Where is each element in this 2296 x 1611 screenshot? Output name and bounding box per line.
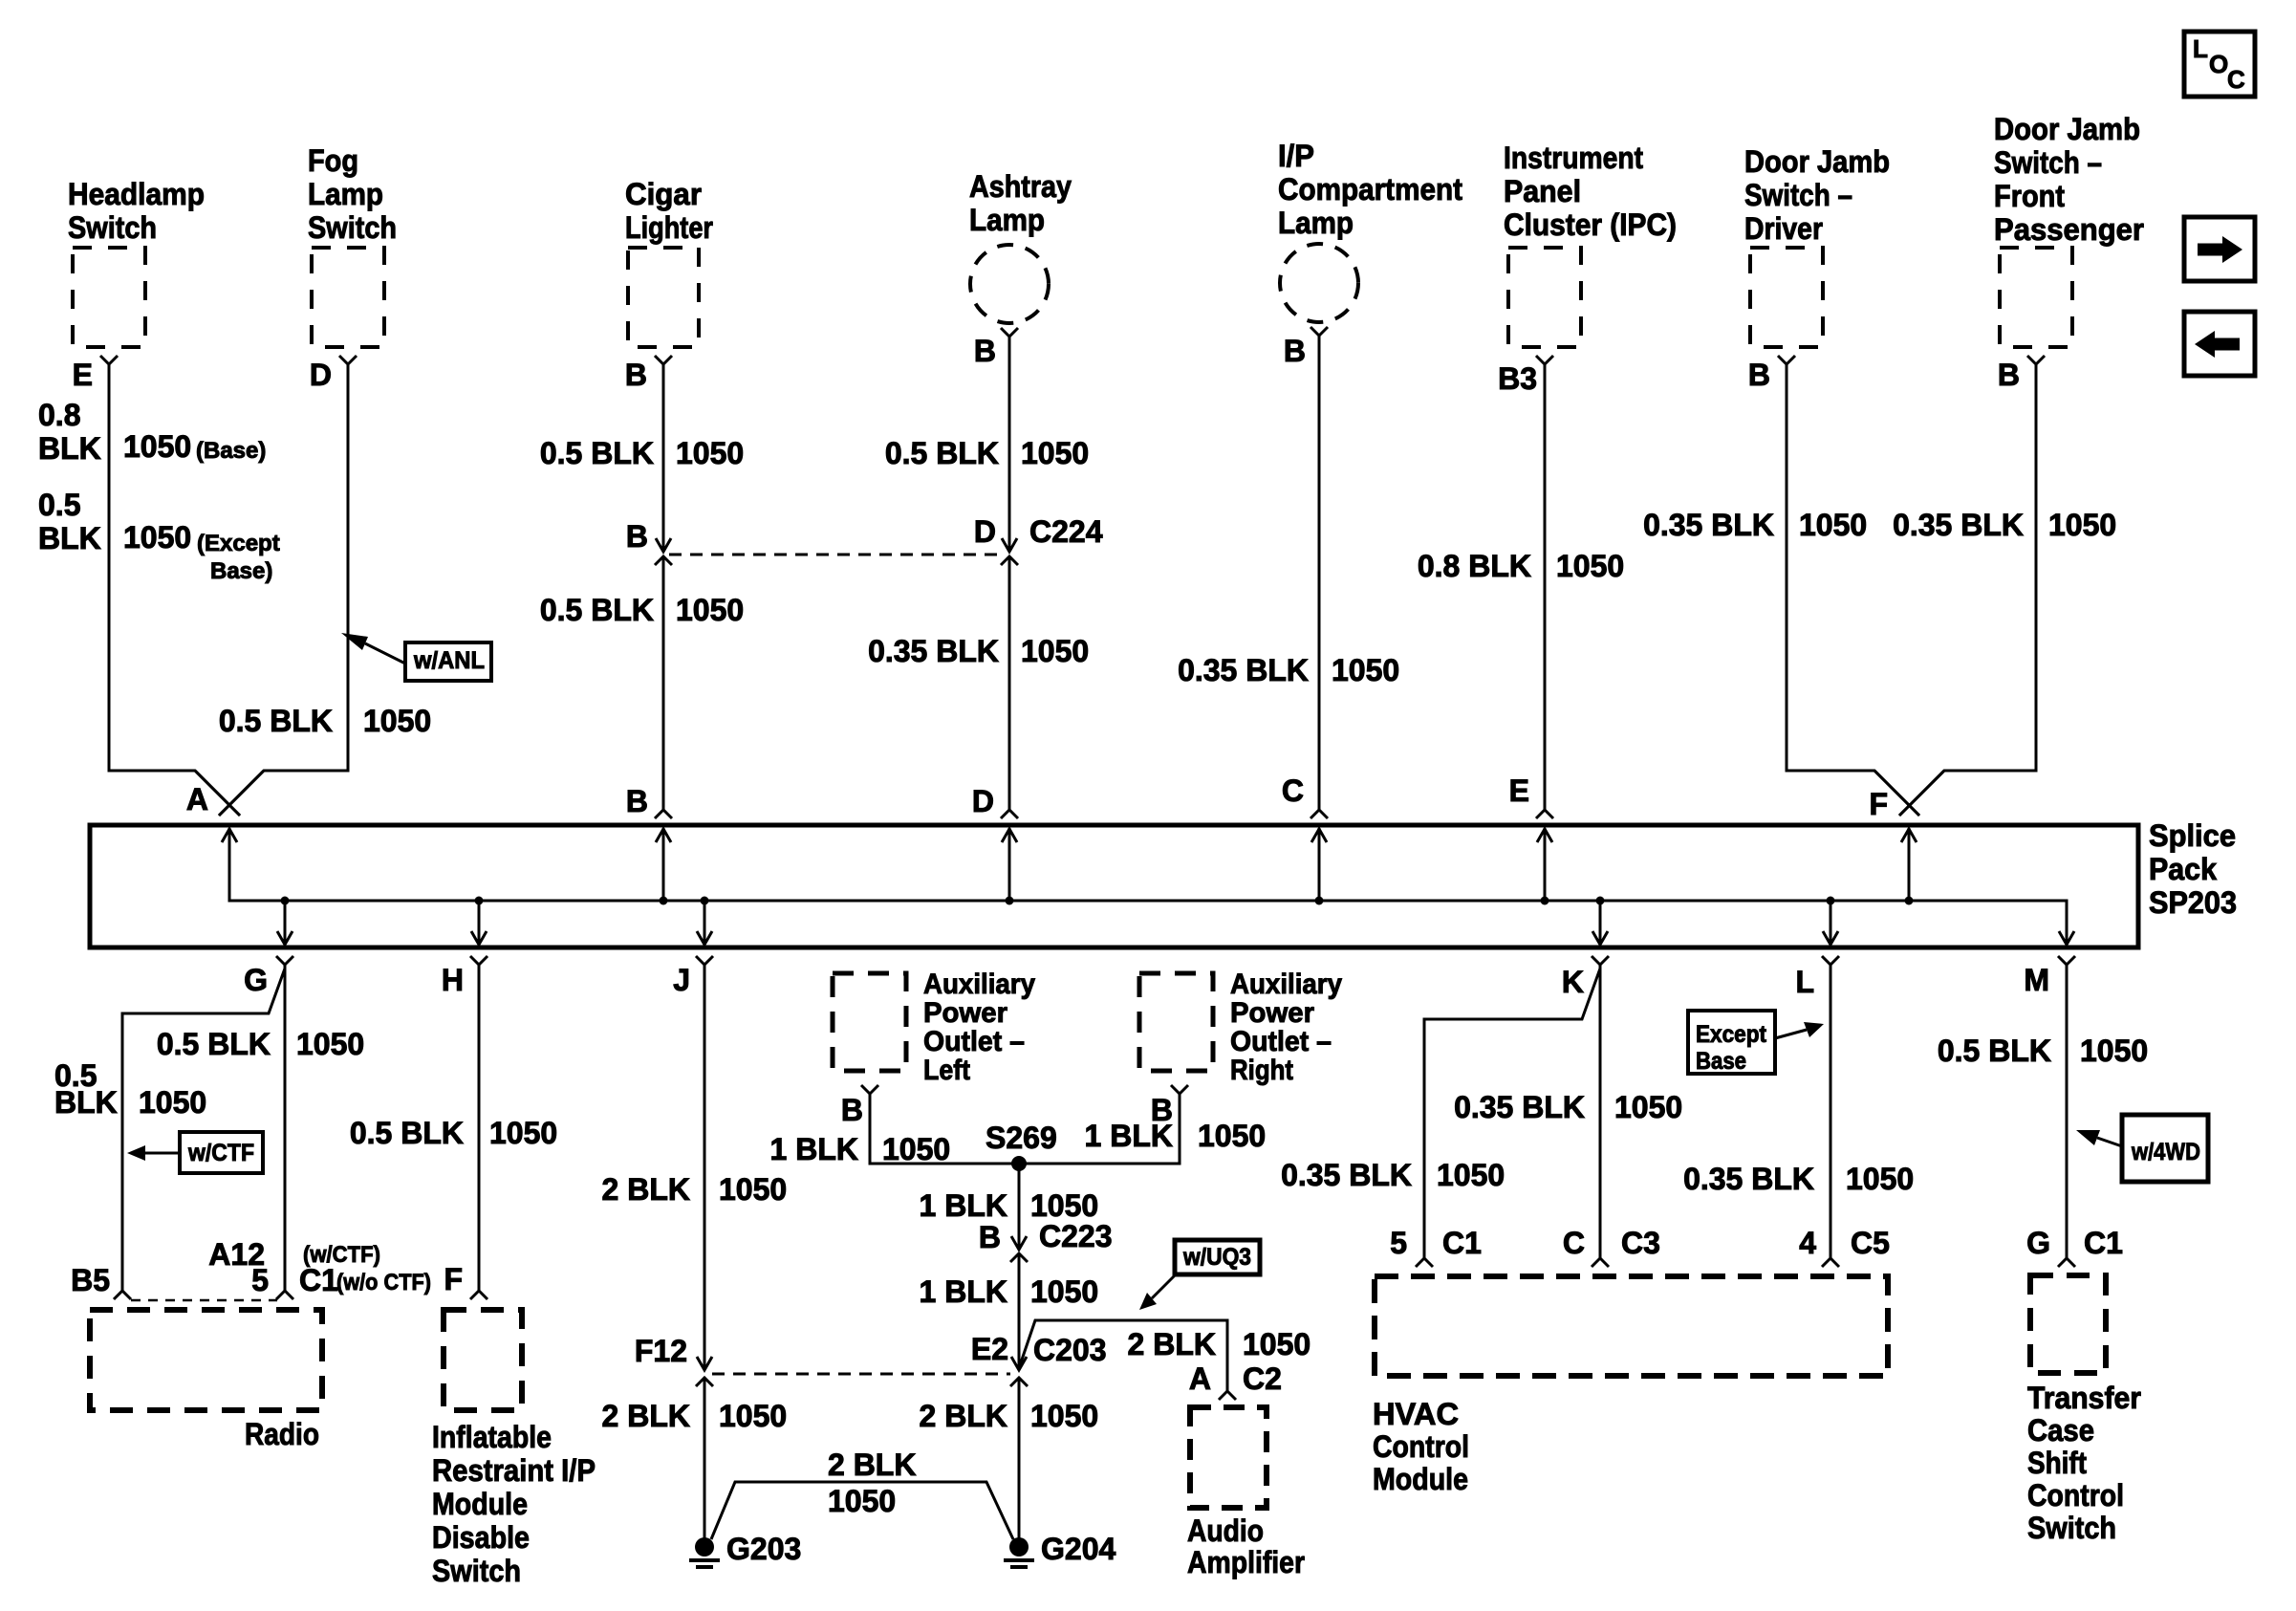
svg-text:Door Jamb: Door Jamb <box>1994 112 2140 146</box>
svg-text:D: D <box>310 358 332 392</box>
svg-text:w/ANL: w/ANL <box>413 647 485 674</box>
splice pack exit G connector <box>276 956 293 965</box>
svg-text:1050: 1050 <box>296 1027 364 1061</box>
svg-text:0.5 BLK: 0.5 BLK <box>157 1027 271 1061</box>
svg-text:Ashtray: Ashtray <box>969 169 1072 204</box>
svg-text:Inflatable: Inflatable <box>432 1420 552 1454</box>
svg-text:0.35 BLK: 0.35 BLK <box>1454 1090 1585 1124</box>
component Door Jamb Switch Driver box <box>1750 248 1823 347</box>
w/UQ3 flag box <box>1175 1240 1260 1274</box>
component Auxiliary Power Outlet Left box <box>833 973 906 1071</box>
svg-text:2 BLK: 2 BLK <box>828 1448 916 1482</box>
svg-text:Passenger: Passenger <box>1994 212 2144 247</box>
connector at Headlamp Switch pin E <box>100 356 118 364</box>
splice pack bus junction dots <box>281 897 290 905</box>
svg-text:0.8: 0.8 <box>38 398 80 432</box>
svg-text:C1: C1 <box>1442 1226 1482 1260</box>
splice pack exit arrow L <box>1823 931 1838 945</box>
svg-text:L: L <box>1795 965 1814 999</box>
connector C224 chevron ashtray side <box>1001 556 1018 565</box>
svg-text:0.35 BLK: 0.35 BLK <box>1893 508 2024 542</box>
svg-text:E2: E2 <box>971 1332 1008 1366</box>
svg-text:w/CTF: w/CTF <box>187 1140 254 1166</box>
svg-text:Control: Control <box>1373 1429 1469 1464</box>
svg-text:1050: 1050 <box>123 429 191 464</box>
svg-text:S269: S269 <box>986 1121 1057 1155</box>
svg-text:Outlet –: Outlet – <box>923 1026 1025 1057</box>
svg-text:1050: 1050 <box>828 1484 896 1518</box>
svg-text:Compartment: Compartment <box>1278 172 1462 207</box>
svg-text:C3: C3 <box>1621 1226 1660 1260</box>
svg-text:F: F <box>1869 787 1888 821</box>
svg-text:1050: 1050 <box>1437 1158 1505 1192</box>
svg-text:Except: Except <box>1696 1021 1767 1048</box>
svg-text:1050: 1050 <box>676 436 744 470</box>
wire 0.5 BLK 1050 from exit M to Transfer Case pin G/C1 <box>2066 965 2069 1258</box>
svg-text:BLK: BLK <box>38 521 101 555</box>
svg-text:1050: 1050 <box>139 1085 206 1120</box>
splice pack entry arrow D <box>1002 829 1017 842</box>
svg-text:1050: 1050 <box>1243 1327 1310 1361</box>
svg-text:B: B <box>626 784 648 818</box>
svg-text:1050: 1050 <box>489 1116 557 1150</box>
svg-text:B: B <box>841 1093 863 1127</box>
svg-text:1050: 1050 <box>882 1132 950 1166</box>
connector C223 chevron <box>1010 1253 1028 1262</box>
wire 2 BLK 1050 from exit J to connector C203 F12 <box>704 965 706 1370</box>
svg-text:1050: 1050 <box>1846 1162 1914 1196</box>
wire 2 BLK 1050 from C203 to ground G204 <box>1018 1378 1021 1539</box>
svg-text:(Except: (Except <box>197 531 280 556</box>
svg-text:E: E <box>1509 773 1529 808</box>
wire 0.5 BLK 1050 from exit G to Radio pin 5/C1 <box>284 965 287 1291</box>
svg-text:2 BLK: 2 BLK <box>602 1399 690 1433</box>
wire 0.5 BLK 1050 from Ashtray Lamp to connector C224 <box>1008 337 1011 551</box>
ground G204 symbol <box>1009 1537 1029 1557</box>
svg-text:Base): Base) <box>210 558 272 584</box>
w/CTF flag arrow <box>145 1152 180 1155</box>
svg-text:0.8 BLK: 0.8 BLK <box>1418 549 1531 583</box>
svg-text:Outlet –: Outlet – <box>1230 1026 1332 1057</box>
svg-text:0.35 BLK: 0.35 BLK <box>1683 1162 1814 1196</box>
svg-text:Auxiliary: Auxiliary <box>1230 969 1342 1000</box>
w/CTF flag box <box>180 1132 263 1173</box>
svg-text:B: B <box>1998 358 2020 392</box>
splice pack exit wire K <box>1599 901 1602 945</box>
svg-text:B: B <box>625 358 647 392</box>
svg-text:0.35 BLK: 0.35 BLK <box>1178 653 1309 687</box>
connector at Door Jamb Switch Driver pin B <box>1778 356 1795 364</box>
HVAC pin 5 connector chevron <box>1416 1258 1433 1267</box>
svg-text:0.5 BLK: 0.5 BLK <box>219 704 333 738</box>
ground G203 symbol <box>695 1537 714 1557</box>
svg-text:Fog: Fog <box>308 143 358 178</box>
splice pack entry wire B <box>662 828 665 901</box>
Radio pin B5 connector chevron <box>114 1291 131 1299</box>
connector C203 dashed line <box>712 1373 1010 1376</box>
svg-text:G: G <box>2026 1226 2050 1260</box>
svg-text:Restraint I/P: Restraint I/P <box>432 1453 596 1488</box>
svg-text:1050: 1050 <box>2048 508 2116 542</box>
svg-text:w/UQ3: w/UQ3 <box>1182 1244 1251 1271</box>
svg-text:1050: 1050 <box>1030 1188 1098 1223</box>
splice pack entry C connector chevron <box>1310 810 1328 818</box>
svg-text:0.35 BLK: 0.35 BLK <box>1281 1158 1412 1192</box>
wire branch from G to Radio pin B5 <box>122 969 285 1291</box>
w/ANL flag arrow <box>365 643 405 664</box>
component Inflatable Restraint Disable Switch box <box>444 1310 522 1410</box>
svg-text:w/4WD: w/4WD <box>2131 1139 2200 1165</box>
component Instrument Panel Cluster box <box>1508 248 1581 347</box>
splice pack exit J connector <box>696 956 713 965</box>
splice pack exit wire H <box>478 901 481 945</box>
svg-text:O: O <box>2209 50 2228 78</box>
svg-text:Right: Right <box>1230 1055 1293 1086</box>
connector at Fog Lamp Switch pin D <box>339 356 357 364</box>
HVAC pin 4 connector chevron <box>1822 1258 1839 1267</box>
svg-text:BLK: BLK <box>38 431 101 466</box>
svg-text:Lamp: Lamp <box>969 203 1045 237</box>
svg-text:Left: Left <box>923 1055 970 1086</box>
svg-text:5: 5 <box>251 1263 269 1297</box>
svg-text:M: M <box>2024 963 2049 997</box>
svg-text:Switch: Switch <box>68 210 157 245</box>
svg-text:1050: 1050 <box>1332 653 1399 687</box>
splice pack entry arrow B <box>656 829 671 842</box>
svg-text:Module: Module <box>432 1487 528 1521</box>
Transfer Case pin G connector chevron <box>2058 1258 2075 1267</box>
component Audio Amplifier box <box>1190 1407 1267 1508</box>
svg-text:2 BLK: 2 BLK <box>920 1399 1007 1433</box>
wire 0.8 BLK 1050 from Headlamp Switch pin E to node A <box>109 364 240 816</box>
arrow into connector C224 cigar side <box>656 538 671 552</box>
component Ashtray Lamp circle <box>970 245 1049 323</box>
splice pack entry wire E <box>1544 828 1547 901</box>
svg-text:Lighter: Lighter <box>625 210 713 245</box>
splice pack exit arrow G <box>277 931 292 945</box>
svg-text:Front: Front <box>1994 179 2065 213</box>
LOC locator box <box>2184 32 2255 97</box>
svg-text:Cluster (IPC): Cluster (IPC) <box>1504 207 1677 242</box>
svg-text:Module: Module <box>1373 1462 1468 1496</box>
component Headlamp Switch box <box>73 248 145 347</box>
svg-text:0.5 BLK: 0.5 BLK <box>1938 1034 2051 1068</box>
connector at Door Jamb Switch Front Passenger pin B <box>2027 356 2045 364</box>
w/ANL flag box <box>405 642 491 681</box>
svg-text:0.5 BLK: 0.5 BLK <box>350 1116 464 1150</box>
svg-text:BLK: BLK <box>54 1085 118 1120</box>
component Radio box <box>90 1310 322 1410</box>
splice pack exit M connector <box>2058 956 2075 965</box>
component Transfer Case Shift Control Switch box <box>2030 1275 2106 1373</box>
svg-text:Lamp: Lamp <box>308 177 383 211</box>
svg-text:B5: B5 <box>71 1263 110 1297</box>
svg-text:B: B <box>626 519 648 554</box>
splice pack exit K connector <box>1592 956 1609 965</box>
svg-text:C203: C203 <box>1033 1333 1107 1367</box>
svg-text:0.35 BLK: 0.35 BLK <box>868 634 999 668</box>
component I/P Compartment Lamp circle <box>1280 244 1358 322</box>
splice pack entry wire C <box>1318 828 1321 901</box>
splice pack SP203 box <box>90 825 2138 947</box>
splice pack internal bus wire <box>229 828 2067 945</box>
node A crossed wires <box>195 771 240 816</box>
svg-text:Control: Control <box>2027 1478 2124 1513</box>
component HVAC Control Module box <box>1375 1276 1888 1376</box>
wire 0.35 BLK 1050 from Door Jamb Switch Driver to node F <box>1787 364 1919 816</box>
svg-text:Switch: Switch <box>2027 1511 2116 1545</box>
w/4WD flag arrow <box>2097 1138 2122 1146</box>
wire 0.35 BLK 1050 from exit L to HVAC pin 4/C5 <box>1830 965 1832 1258</box>
wire 0.5 BLK 1050 from C224 to splice pack B <box>662 556 665 810</box>
svg-text:C223: C223 <box>1039 1219 1113 1253</box>
svg-text:1 BLK: 1 BLK <box>920 1188 1007 1223</box>
svg-text:1050: 1050 <box>1614 1090 1682 1124</box>
svg-text:1050: 1050 <box>1556 549 1624 583</box>
svg-text:2 BLK: 2 BLK <box>602 1172 690 1207</box>
svg-text:G: G <box>244 963 268 997</box>
svg-text:0.5 BLK: 0.5 BLK <box>540 436 654 470</box>
splice pack entry arrow E <box>1537 829 1552 842</box>
connector at I/P Compartment Lamp pin B <box>1310 327 1328 336</box>
arrow into connector C203 at E2 <box>1011 1357 1027 1370</box>
connector at IPC pin B3 <box>1536 356 1553 364</box>
wire 0.35 BLK 1050 from Door Jamb Switch Front Passenger to node F <box>1899 364 2036 816</box>
wire branch from K to HVAC pin 5/C1 <box>1424 969 1600 1258</box>
svg-text:Power: Power <box>923 997 1007 1029</box>
splice pack exit arrow J <box>697 931 712 945</box>
svg-text:Switch –: Switch – <box>1744 178 1852 212</box>
svg-text:1050: 1050 <box>123 520 191 555</box>
Radio pin 5 connector chevron <box>276 1291 293 1299</box>
svg-text:0.5: 0.5 <box>38 488 80 522</box>
splice pack entry B connector chevron <box>655 810 672 818</box>
splice pack entry D connector chevron <box>1001 810 1018 818</box>
node F crossed wires <box>1874 771 1919 816</box>
svg-text:1 BLK: 1 BLK <box>1085 1119 1173 1153</box>
component Cigar Lighter box <box>628 248 699 347</box>
splice pack entry arrow C <box>1311 829 1327 842</box>
wire 0.35 BLK 1050 from C224 to splice pack D <box>1008 556 1011 810</box>
Except Base flag arrow <box>1775 1030 1807 1038</box>
next-page arrow box <box>2184 217 2255 281</box>
splice pack entry wire F <box>1908 828 1911 901</box>
svg-text:E: E <box>73 358 93 392</box>
svg-text:B: B <box>1748 358 1770 392</box>
wire 0.5 BLK 1050 from exit H to Disable Switch pin F <box>478 965 481 1291</box>
component Auxiliary Power Outlet Right box <box>1139 973 1213 1071</box>
svg-text:Disable: Disable <box>432 1520 530 1555</box>
svg-text:Case: Case <box>2027 1413 2094 1448</box>
svg-text:H: H <box>442 963 464 997</box>
Except Base flag box <box>1688 1011 1775 1074</box>
svg-text:C: C <box>2227 65 2245 94</box>
svg-text:1050: 1050 <box>1799 508 1867 542</box>
svg-text:Power: Power <box>1230 997 1314 1029</box>
wire 0.35 BLK 1050 from I/P Compartment Lamp to splice pack C <box>1318 336 1321 810</box>
svg-text:B: B <box>979 1220 1001 1254</box>
splice pack exit H connector <box>470 956 487 965</box>
wire 1 BLK 1050 from S269 to connector C223 <box>1018 1164 1021 1250</box>
svg-text:G203: G203 <box>726 1532 801 1566</box>
svg-text:Auxiliary: Auxiliary <box>923 969 1035 1000</box>
svg-text:D: D <box>974 514 996 549</box>
connector at Ashtray Lamp pin B <box>1001 328 1018 337</box>
svg-text:2 BLK: 2 BLK <box>1128 1327 1216 1361</box>
svg-text:C: C <box>1563 1226 1585 1260</box>
svg-text:1050: 1050 <box>1030 1274 1098 1309</box>
splice pack entry wire D <box>1008 828 1011 901</box>
svg-text:(Base): (Base) <box>196 438 266 464</box>
svg-text:C1: C1 <box>299 1263 338 1297</box>
svg-text:Shift: Shift <box>2027 1446 2087 1480</box>
splice S269 dot <box>1011 1156 1027 1171</box>
component Fog Lamp Switch box <box>312 248 384 347</box>
splice pack entry arrow A <box>222 829 237 842</box>
svg-text:B: B <box>1284 334 1306 368</box>
svg-text:0.35 BLK: 0.35 BLK <box>1643 508 1774 542</box>
splice pack exit wire J <box>704 901 706 945</box>
svg-text:G204: G204 <box>1041 1532 1116 1566</box>
svg-text:Amplifier: Amplifier <box>1187 1545 1305 1579</box>
svg-text:Transfer: Transfer <box>2027 1381 2141 1415</box>
splice pack entry E connector chevron <box>1536 810 1553 818</box>
svg-text:Driver: Driver <box>1744 211 1823 246</box>
svg-text:1 BLK: 1 BLK <box>920 1274 1007 1309</box>
svg-text:Cigar: Cigar <box>625 177 702 211</box>
arrow into connector C224 ashtray side <box>1002 538 1017 552</box>
svg-text:4: 4 <box>1799 1226 1816 1260</box>
svg-text:J: J <box>673 963 690 997</box>
svg-text:B: B <box>974 334 996 368</box>
svg-text:Splice: Splice <box>2149 818 2236 853</box>
svg-text:1050: 1050 <box>676 593 744 627</box>
splice pack entry arrow F <box>1901 829 1917 842</box>
svg-text:SP203: SP203 <box>2149 885 2237 920</box>
svg-text:Base: Base <box>1696 1048 1746 1075</box>
wire 1 BLK 1050 from C223 to connector C203 E2 <box>1018 1253 1021 1370</box>
svg-text:D: D <box>972 784 994 818</box>
svg-text:C1: C1 <box>2084 1226 2123 1260</box>
arrow into connector C203 at F12 <box>697 1357 712 1370</box>
svg-text:Lamp: Lamp <box>1278 206 1354 240</box>
svg-text:A: A <box>186 782 208 816</box>
svg-text:1050: 1050 <box>1030 1399 1098 1433</box>
svg-text:5: 5 <box>1390 1226 1407 1260</box>
svg-text:Switch: Switch <box>432 1554 521 1588</box>
w/4WD flag box <box>2122 1115 2208 1182</box>
connector C203 chevron at F12 <box>696 1378 713 1386</box>
previous-page arrow box <box>2184 312 2255 376</box>
svg-text:Pack: Pack <box>2149 852 2217 886</box>
w/UQ3 flag arrow <box>1152 1274 1176 1298</box>
svg-text:1050: 1050 <box>1021 634 1089 668</box>
svg-text:C2: C2 <box>1243 1361 1282 1396</box>
wire 0.35 BLK 1050 from exit K to HVAC pin C/C3 <box>1599 965 1602 1258</box>
connector at Aux Power Outlet Right pin B <box>1171 1085 1188 1094</box>
svg-text:Panel: Panel <box>1504 174 1581 208</box>
wire 0.5 BLK 1050 from Fog Lamp Switch pin D to node A <box>219 364 348 816</box>
svg-text:0.5 BLK: 0.5 BLK <box>540 593 654 627</box>
svg-text:1050: 1050 <box>363 704 431 738</box>
svg-text:C5: C5 <box>1851 1226 1890 1260</box>
wire 0.5 BLK 1050 from Cigar Lighter to connector C224 <box>662 364 665 551</box>
svg-text:1050: 1050 <box>1021 436 1089 470</box>
connector at Cigar Lighter pin B <box>655 356 672 364</box>
svg-text:0.5 BLK: 0.5 BLK <box>885 436 999 470</box>
component Door Jamb Switch Front Passenger box <box>2000 248 2072 347</box>
svg-text:Switch: Switch <box>308 210 397 245</box>
svg-text:1050: 1050 <box>2080 1034 2148 1068</box>
wire 0.8 BLK 1050 from IPC to splice pack E <box>1544 364 1547 810</box>
svg-text:1050: 1050 <box>719 1399 787 1433</box>
splice pack exit wire G <box>284 901 287 945</box>
connector C203 chevron at E2 <box>1010 1378 1028 1386</box>
svg-text:F: F <box>444 1262 463 1296</box>
svg-text:Door Jamb: Door Jamb <box>1744 144 1890 179</box>
svg-text:K: K <box>1562 965 1584 999</box>
svg-text:Switch –: Switch – <box>1994 145 2102 180</box>
svg-text:L: L <box>2193 34 2208 63</box>
svg-text:C: C <box>1282 773 1304 808</box>
svg-text:F12: F12 <box>635 1334 687 1368</box>
connector at Aux Power Outlet Left pin B <box>861 1085 878 1094</box>
svg-text:Instrument: Instrument <box>1504 141 1643 175</box>
splice pack exit arrow K <box>1592 931 1608 945</box>
svg-text:1 BLK: 1 BLK <box>770 1132 858 1166</box>
svg-text:1050: 1050 <box>1198 1119 1266 1153</box>
svg-text:C224: C224 <box>1029 514 1103 549</box>
arrow into connector C223 <box>1011 1236 1027 1250</box>
splice pack exit arrow H <box>471 931 487 945</box>
Radio connector dashed line <box>131 1299 277 1302</box>
splice pack exit L connector <box>1822 956 1839 965</box>
svg-text:Headlamp: Headlamp <box>68 177 205 211</box>
connector C224 dashed line <box>669 554 1002 556</box>
svg-text:A: A <box>1189 1361 1211 1396</box>
svg-text:(w/o CTF): (w/o CTF) <box>336 1270 431 1295</box>
svg-text:Audio: Audio <box>1187 1513 1264 1548</box>
svg-text:1050: 1050 <box>719 1172 787 1207</box>
splice pack exit arrow M <box>2059 931 2074 945</box>
Audio Amplifier pin A connector chevron <box>1219 1391 1236 1400</box>
Disable Switch pin F connector chevron <box>470 1291 487 1299</box>
wire 2 BLK 1050 from C203 to ground G203 <box>704 1378 706 1539</box>
wire 1 BLK 1050 from outlets to splice S269 <box>870 1094 1180 1164</box>
wire 2 BLK 1050 between G203 and G204 <box>711 1482 1013 1539</box>
HVAC pin C connector chevron <box>1592 1258 1609 1267</box>
wire 2 BLK 1050 branch from E2 to Audio Amplifier <box>1020 1320 1227 1391</box>
splice pack exit wire L <box>1830 901 1832 945</box>
connector C224 chevron cigar side <box>655 556 672 565</box>
svg-text:Radio: Radio <box>245 1417 319 1451</box>
svg-text:I/P: I/P <box>1278 139 1314 173</box>
svg-text:HVAC: HVAC <box>1373 1397 1459 1431</box>
svg-text:B3: B3 <box>1498 361 1537 396</box>
